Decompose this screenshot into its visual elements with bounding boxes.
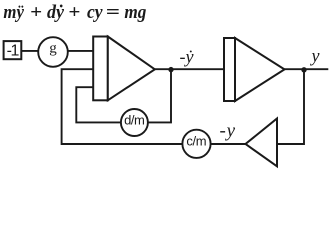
wire c/m feedback rail: from inverter U3 output left, then up to summer S1 input 2 xyxy=(62,69,246,144)
svg-text:+: + xyxy=(68,2,80,23)
svg-text:c/m: c/m xyxy=(186,134,206,149)
svg-text:-1: -1 xyxy=(7,43,20,60)
svg-text:y: y xyxy=(310,46,320,66)
node -ydot junction dot xyxy=(168,67,173,72)
gain block -1 xyxy=(4,41,22,60)
inverter U3 xyxy=(246,119,278,167)
gain c/m xyxy=(182,130,210,158)
summer S1 xyxy=(93,37,108,101)
wire d/m feedback: from node -ydot down, left along rail, up to summer S1 input 3 xyxy=(76,69,171,122)
integrator U2 triangle xyxy=(235,38,285,101)
integrator U1 triangle xyxy=(108,37,155,101)
svg-text:cy: cy xyxy=(87,2,103,23)
summer S2 xyxy=(224,38,235,101)
gain d/m xyxy=(121,109,148,136)
wire from gain g to summer S1 input 1 xyxy=(67,50,94,52)
svg-text:dẏ: dẏ xyxy=(47,2,65,23)
gain g xyxy=(38,37,68,67)
wire integrator U2 output to output y xyxy=(285,68,329,70)
svg-text:mÿ: mÿ xyxy=(3,2,24,23)
wire from node y down and left into inverter U3 input xyxy=(277,69,304,144)
svg-text:d/m: d/m xyxy=(124,112,144,127)
wire from gain -1 to gain g xyxy=(21,50,39,52)
node y junction dot xyxy=(301,67,306,72)
svg-text:g: g xyxy=(49,41,57,57)
equation label: m y-ddot + d y-dot + c y = m g xyxy=(3,2,146,23)
svg-text:-y: -y xyxy=(220,121,236,142)
svg-text:=: = xyxy=(106,2,120,23)
wire integrator U1 output to integrator U2 input xyxy=(155,68,224,70)
svg-text:+: + xyxy=(30,2,42,23)
svg-text:mg: mg xyxy=(124,2,146,23)
svg-text:-ẏ: -ẏ xyxy=(180,47,195,67)
